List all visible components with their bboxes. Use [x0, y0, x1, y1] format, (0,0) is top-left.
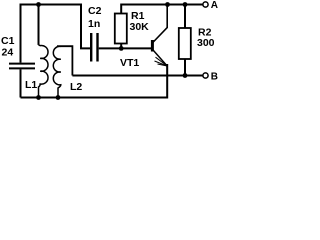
svg-text:L1: L1: [25, 79, 37, 91]
svg-text:C1: C1: [1, 35, 15, 47]
svg-text:C2: C2: [88, 5, 102, 17]
svg-text:VT1: VT1: [120, 57, 139, 69]
svg-text:300: 300: [197, 37, 215, 49]
svg-text:B: B: [211, 72, 218, 83]
svg-text:24: 24: [2, 47, 14, 59]
svg-text:L2: L2: [70, 81, 82, 93]
svg-text:30K: 30K: [130, 21, 150, 33]
svg-text:1n: 1n: [88, 18, 100, 30]
svg-text:A: A: [211, 0, 218, 11]
